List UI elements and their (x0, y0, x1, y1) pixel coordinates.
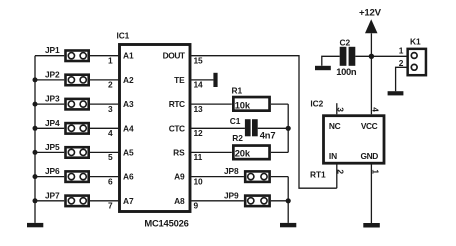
jumper JP3 (66, 99, 89, 110)
svg-text:A4: A4 (123, 123, 134, 133)
svg-text:9: 9 (194, 201, 199, 211)
wire JP8 to gnd line (271, 176, 288, 178)
node rail-JP7 (33, 198, 38, 203)
svg-text:JP1: JP1 (45, 45, 60, 55)
ground C2 (315, 66, 331, 70)
node RC junction (286, 126, 291, 131)
svg-text:15: 15 (194, 56, 204, 66)
jumper JP6 (66, 171, 89, 182)
wire K1 pin 2 to ground (396, 67, 407, 91)
wire pin 12 CTC to C1 (191, 127, 245, 129)
svg-text:A6: A6 (123, 172, 134, 182)
wire JP6 to pin 6 (90, 176, 118, 178)
svg-text:JP9: JP9 (224, 191, 239, 201)
svg-text:JP8: JP8 (224, 166, 239, 176)
svg-text:JP3: JP3 (45, 94, 60, 104)
svg-text:2: 2 (399, 58, 404, 68)
svg-text:JP7: JP7 (45, 190, 60, 200)
IC2 regulator body (324, 116, 385, 164)
node rail-JP5 (33, 150, 38, 155)
svg-text:C1: C1 (230, 116, 241, 126)
node +12V/C2/K1 junction (369, 54, 374, 59)
svg-text:3: 3 (335, 107, 345, 112)
jumper JP7 (66, 196, 89, 207)
wire R2 to node (271, 151, 288, 153)
wire JP2 to pin 2 (90, 79, 118, 81)
wire rail to JP1 (35, 55, 64, 57)
svg-text:A2: A2 (123, 75, 134, 85)
svg-text:VCC: VCC (361, 121, 378, 131)
svg-text:1: 1 (108, 56, 113, 66)
node rail-JP6 (33, 174, 38, 179)
svg-text:A7: A7 (123, 196, 134, 206)
node rail-JP3 (33, 102, 38, 107)
svg-text:10k: 10k (235, 99, 251, 110)
jumper JP9 (245, 196, 269, 207)
svg-text:MC145026: MC145026 (144, 217, 188, 228)
capacitor C1 (245, 119, 258, 136)
wire rail to JP6 (35, 176, 64, 178)
wire JP3 to pin 3 (90, 103, 118, 105)
ground IC2 (363, 223, 380, 228)
ground left rail (27, 223, 43, 227)
node JP9 junction (286, 198, 291, 203)
wire RC node vertical (287, 104, 289, 152)
wire pin 14 TE stub (191, 79, 213, 81)
svg-text:JP5: JP5 (45, 142, 60, 152)
svg-text:RT1: RT1 (310, 170, 326, 180)
svg-text:3: 3 (108, 104, 113, 114)
wire pin 9 A8 to JP9 (191, 200, 244, 202)
svg-text:A9: A9 (174, 172, 185, 182)
svg-text:A1: A1 (123, 51, 134, 61)
jumper JP2 (66, 75, 89, 86)
svg-text:IC1: IC1 (117, 30, 130, 40)
ground TE (rotated) (213, 73, 217, 87)
wire pin 15 DOUT (191, 56, 336, 189)
svg-text:JP4: JP4 (45, 118, 60, 128)
svg-text:IN: IN (329, 151, 337, 161)
svg-text:5: 5 (108, 152, 113, 162)
jumper JP5 (66, 147, 89, 158)
pin 3 NC stub (336, 103, 338, 114)
svg-text:K1: K1 (410, 36, 421, 46)
wire C2 left to ground (322, 56, 340, 66)
capacitor C2 (340, 47, 356, 66)
svg-text:JP2: JP2 (45, 69, 60, 79)
svg-text:R1: R1 (232, 86, 243, 96)
svg-text:GND: GND (361, 151, 379, 161)
svg-text:CTC: CTC (169, 123, 185, 133)
connector K1 (408, 49, 426, 75)
svg-text:C2: C2 (340, 38, 351, 48)
wire rail to JP7 (35, 200, 64, 202)
IC1 MC145026 body (120, 45, 191, 212)
wire pin 10 A9 to JP8 (191, 176, 244, 178)
ground JP8/JP9 (280, 223, 296, 227)
svg-text:A5: A5 (123, 147, 134, 157)
wire rail to JP5 (35, 151, 64, 153)
pin 1 GND lead (370, 163, 372, 223)
svg-text:RTC: RTC (169, 99, 185, 109)
jumper JP8 (245, 171, 269, 182)
svg-text:12: 12 (194, 128, 204, 138)
node rail-JP4 (33, 126, 38, 131)
wire rail to JP2 (35, 79, 64, 81)
svg-text:RS: RS (173, 147, 185, 157)
wire pin 13 RTC to R1 (191, 103, 232, 105)
svg-text:1: 1 (370, 169, 380, 174)
wire R1 to node (271, 103, 288, 105)
svg-text:DOUT: DOUT (163, 51, 186, 61)
svg-text:4: 4 (108, 128, 113, 138)
wire JP9 to gnd line (271, 200, 288, 202)
jumper JP1 (66, 51, 89, 62)
wire C2 to K1 pin 1 (355, 55, 406, 57)
svg-text:2: 2 (108, 80, 113, 90)
svg-text:A8: A8 (174, 196, 185, 206)
resistor R2 (233, 146, 269, 160)
svg-text:A3: A3 (123, 99, 134, 109)
svg-text:TE: TE (174, 75, 185, 85)
wire pin 11 RS to R2 (191, 151, 232, 153)
node rail-JP2 (33, 77, 38, 82)
wire JP7 to pin 7 (90, 200, 118, 202)
wire +12V to VCC pin 4 (370, 33, 372, 114)
pin 2 IN lead (336, 163, 338, 188)
svg-text:1: 1 (399, 46, 404, 56)
wire rail to JP3 (35, 103, 64, 105)
svg-text:11: 11 (194, 152, 203, 162)
svg-text:100n: 100n (336, 66, 357, 77)
svg-text:2: 2 (335, 169, 345, 174)
svg-text:4n7: 4n7 (260, 129, 276, 140)
svg-text:6: 6 (108, 176, 113, 186)
svg-text:R2: R2 (232, 133, 243, 143)
wire JP8/JP9 gnd vertical (287, 177, 289, 223)
ground K1 (388, 91, 404, 95)
resistor R1 (233, 97, 269, 111)
wire C1 to node (258, 127, 289, 129)
svg-text:14: 14 (194, 80, 204, 90)
svg-text:+12V: +12V (359, 7, 382, 18)
wire JP1 to pin 1 (90, 55, 118, 57)
wire rail to JP4 (35, 127, 64, 129)
svg-text:7: 7 (108, 201, 113, 211)
svg-text:4: 4 (370, 107, 380, 112)
wire JP4 to pin 4 (90, 127, 118, 129)
wire left GND rail vertical (34, 56, 36, 223)
jumper JP4 (66, 123, 89, 134)
svg-text:JP6: JP6 (45, 166, 60, 176)
svg-text:IC2: IC2 (310, 99, 323, 109)
svg-text:10: 10 (194, 176, 204, 186)
svg-text:13: 13 (194, 104, 204, 114)
svg-text:NC: NC (329, 121, 341, 131)
supply +12V symbol (365, 19, 378, 33)
wire JP5 to pin 5 (90, 151, 118, 153)
svg-text:20k: 20k (235, 148, 251, 159)
